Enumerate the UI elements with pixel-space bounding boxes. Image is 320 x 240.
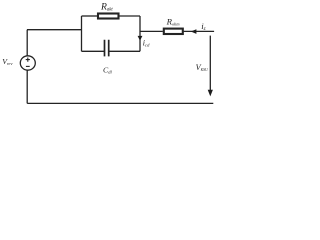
svg-text:Rohm: Rohm	[166, 16, 180, 26]
wire right vertical (V arrow shaft)	[209, 36, 211, 91]
voltage arrow V_KSU head	[208, 90, 213, 97]
current arrow i_z	[191, 29, 197, 34]
wire top branch left	[82, 15, 98, 17]
wire output left	[140, 30, 163, 32]
resistor R_ohm	[164, 29, 183, 34]
current arrow i_cd	[138, 36, 143, 41]
wire left vertical upper	[26, 30, 28, 56]
svg-text:Cdl: Cdl	[103, 65, 113, 74]
node/rail left of RC block	[81, 16, 83, 51]
voltage source V_rev	[20, 56, 35, 70]
resistor R_akt	[98, 14, 119, 19]
capacitor C_dl	[105, 40, 109, 57]
wire bottom branch right	[109, 50, 140, 52]
wire top branch right	[120, 15, 141, 17]
svg-text:icd: icd	[143, 38, 150, 47]
wire bottom branch left	[82, 50, 105, 52]
node/rail right of RC block	[139, 16, 141, 51]
svg-text:VKSU: VKSU	[196, 63, 208, 72]
svg-text:Vrev: Vrev	[2, 57, 12, 66]
svg-text:iz: iz	[201, 21, 205, 32]
wire bottom	[27, 102, 213, 104]
wire left vertical lower	[26, 70, 28, 103]
wire top-left feed	[27, 29, 82, 31]
wire output right	[184, 30, 215, 32]
svg-text:Rakt: Rakt	[100, 1, 113, 12]
